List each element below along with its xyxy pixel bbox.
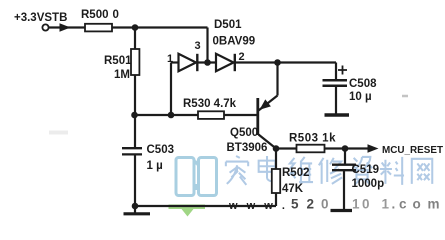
svg-text:1 µ: 1 µ (147, 160, 163, 172)
svg-text:+3.3VSTB: +3.3VSTB (14, 12, 67, 24)
ground C503 stub (134, 206, 136, 213)
wire R530 to base (224, 114, 257, 116)
plus sign C508 (338, 66, 347, 75)
node base row left (131, 112, 138, 119)
svg-text:10 µ: 10 µ (349, 91, 372, 103)
svg-text:o: o (413, 197, 421, 212)
svg-text:1: 1 (352, 197, 360, 212)
svg-text:0BAV99: 0BAV99 (213, 36, 256, 48)
wire diode to emitter node (236, 61, 336, 63)
transistor Q500 base bar (256, 98, 259, 135)
wire C508 bottom (335, 86, 337, 114)
wire C508 drop (335, 63, 337, 81)
svg-text:BT3906: BT3906 (227, 142, 268, 154)
svg-text:0: 0 (321, 197, 329, 212)
svg-text:R501: R501 (104, 55, 132, 67)
node bottom (132, 203, 139, 210)
input terminal circle (42, 24, 48, 30)
svg-text:MCU_RESET: MCU_RESET (382, 144, 444, 156)
char wang (412, 159, 432, 184)
svg-text:R530 4.7k: R530 4.7k (183, 98, 237, 110)
svg-text:C508: C508 (349, 78, 377, 90)
wire bottom rail (135, 205, 276, 207)
watermark 520101.com digits (291, 197, 440, 212)
resistor R503 (297, 145, 325, 153)
capacitor C519 (332, 164, 356, 166)
svg-text:R502: R502 (282, 167, 310, 179)
node top rail / R501 (132, 24, 139, 31)
char liao (380, 157, 404, 185)
resistor R502 (272, 169, 280, 193)
wire R502 top lead (275, 149, 277, 170)
node pin1 base row (168, 112, 175, 119)
svg-text:c: c (399, 197, 407, 212)
svg-text:D501: D501 (214, 19, 242, 31)
input arrow (60, 23, 71, 31)
resistor R501 (131, 49, 139, 75)
diode D501a (179, 54, 197, 71)
node emitter (274, 59, 281, 66)
resistor R530 (198, 111, 224, 119)
transistor Q500 emitter (259, 96, 278, 111)
svg-text:C519: C519 (352, 164, 380, 176)
wire input to R500 (49, 26, 85, 28)
capacitor C508 (323, 79, 348, 82)
ground C519 (331, 209, 353, 212)
svg-text:Q500: Q500 (230, 127, 258, 139)
svg-text:0: 0 (362, 197, 370, 212)
svg-text:R503 1k: R503 1k (289, 133, 336, 145)
wire pin1 to diode (171, 61, 179, 63)
svg-text:1M: 1M (114, 69, 130, 81)
wire C519 bottom lead (343, 170, 345, 209)
wire C503 top lead (134, 115, 136, 148)
transistor Q500 collector (259, 135, 277, 149)
wire pin3 drop (206, 28, 208, 63)
svg-text:R500: R500 (81, 9, 109, 21)
svg-text:5: 5 (291, 197, 299, 212)
ground C508 (325, 113, 350, 116)
svg-text:C503: C503 (147, 144, 175, 156)
wire C519 top lead (344, 149, 346, 165)
char wei (289, 157, 313, 184)
node collector (273, 145, 280, 152)
scan artifact dash (402, 95, 408, 98)
ground C503 (124, 212, 151, 215)
char xiu (319, 158, 342, 184)
watermark book icon (176, 158, 217, 196)
scan artifact smudge (49, 131, 68, 135)
svg-text:3: 3 (195, 40, 201, 52)
svg-text:2: 2 (307, 197, 315, 212)
wire R502 bottom lead (275, 193, 277, 206)
resistor R500 (85, 24, 112, 32)
svg-text:2: 2 (239, 51, 245, 63)
char dian (259, 156, 278, 181)
svg-text:47K: 47K (282, 183, 304, 195)
wire between diodes (198, 61, 216, 63)
wire R501 top lead (134, 28, 136, 50)
node pin3 junction (204, 59, 211, 66)
wire collector to R503 (276, 147, 297, 149)
node R503 C519 (342, 145, 349, 152)
output arrow (368, 144, 379, 152)
wire C503 bottom lead (134, 154, 136, 206)
svg-text:.: . (392, 197, 396, 212)
svg-text:0: 0 (113, 9, 119, 21)
wire pin1 vertical (170, 63, 172, 116)
svg-text:1: 1 (382, 197, 390, 212)
watermark chinese chars (226, 156, 432, 185)
char jia (226, 156, 248, 185)
svg-text:1000p: 1000p (352, 178, 385, 190)
watermark green swoosh (169, 205, 206, 217)
wire R501 bottom lead (134, 75, 136, 115)
capacitor C503 (122, 147, 142, 149)
wire emitter vertical (276, 63, 278, 96)
wire R503 to arrow (325, 147, 368, 149)
char zi (352, 157, 372, 185)
wire base row (135, 114, 199, 116)
svg-text:m: m (428, 197, 440, 212)
wire top rail (112, 26, 208, 28)
diode D501b (216, 54, 234, 71)
